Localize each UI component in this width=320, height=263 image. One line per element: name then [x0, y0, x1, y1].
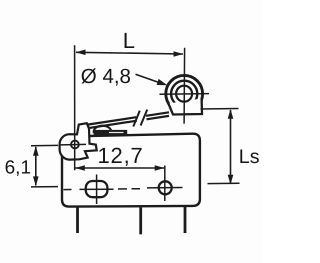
pivot horizontal centre line [61, 143, 87, 146]
pin 2 [139, 207, 142, 234]
pin 3 [184, 207, 187, 233]
dimension 6,1 bottom arrow [33, 176, 39, 186]
dimension 12,7 right arrow [155, 165, 165, 171]
mounting hole left (oval) [86, 181, 108, 197]
dimension 6,1 bottom extension line [31, 186, 58, 188]
leader line to roller [136, 74, 161, 83]
dimension Ls bottom arrow [228, 175, 234, 185]
mounting hole right (circle) [159, 181, 172, 194]
lever arm top edge [88, 112, 170, 124]
pivot pin [71, 141, 79, 149]
roller vertical centre line / L right extension [183, 48, 186, 124]
switch body [62, 134, 200, 207]
dimension 12,7 line [75, 167, 164, 169]
dimension L right arrow [174, 51, 184, 57]
dimension L line [76, 52, 183, 54]
oval hole horizontal centre line [80, 188, 114, 190]
svg-text:L: L [123, 28, 135, 53]
roller bracket [168, 99, 202, 115]
leader arrow [157, 79, 168, 85]
dashed centre line through mounting holes [64, 188, 141, 191]
dimension Ls top extension line [201, 108, 239, 111]
lever break symbol [133, 110, 147, 127]
dimension 12,7 left arrow [75, 165, 85, 171]
plunger dome [94, 126, 112, 132]
dimension Ls bottom extension line [208, 182, 240, 184]
roller middle circle [171, 81, 197, 107]
svg-text:Ø 4,8: Ø 4,8 [81, 65, 131, 88]
dimension Ls top arrow [228, 109, 234, 119]
right hole vertical centre line [164, 166, 166, 202]
roller horizontal centre line [160, 93, 210, 96]
svg-text:Ls: Ls [239, 146, 260, 168]
lever arm bottom edge [89, 116, 170, 128]
dimension Ls line [230, 110, 232, 184]
svg-text:12,7: 12,7 [98, 143, 144, 168]
dimension 6,1 top extension line [31, 144, 58, 146]
pin 1 [76, 207, 79, 233]
roller outer circle [166, 75, 203, 112]
lever hinge bracket [60, 123, 97, 159]
pivot vertical centre line / L left extension [74, 45, 76, 170]
plunger base [94, 130, 128, 135]
dimension 6,1 line [35, 147, 37, 185]
roller inner circle [176, 86, 192, 102]
oval hole vertical centre line [96, 175, 98, 205]
right hole horizontal centre line [147, 187, 183, 189]
svg-text:6,1: 6,1 [5, 157, 31, 178]
dimension L left arrow [76, 50, 86, 56]
dimension 6,1 top arrow [33, 146, 39, 156]
